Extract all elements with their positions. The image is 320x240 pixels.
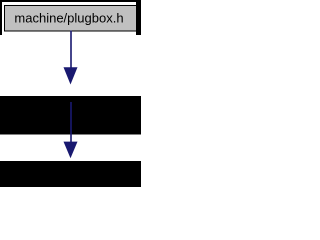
svg-text:machine/plugbox.h: machine/plugbox.h	[14, 11, 123, 26]
